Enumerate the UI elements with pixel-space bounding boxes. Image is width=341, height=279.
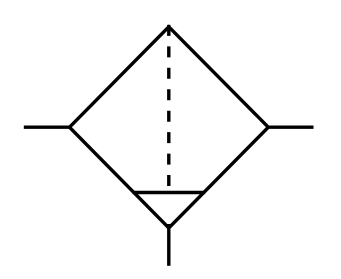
dashed centerline (condensate indicator): [167, 25, 170, 187]
filter/separator body U1 (diamond outline): [70, 27, 269, 228]
wire right port stub: [268, 125, 313, 128]
separator chord (triangle top edge): [133, 191, 206, 194]
wire drain line: [167, 224, 170, 266]
wire left port stub: [24, 125, 70, 128]
